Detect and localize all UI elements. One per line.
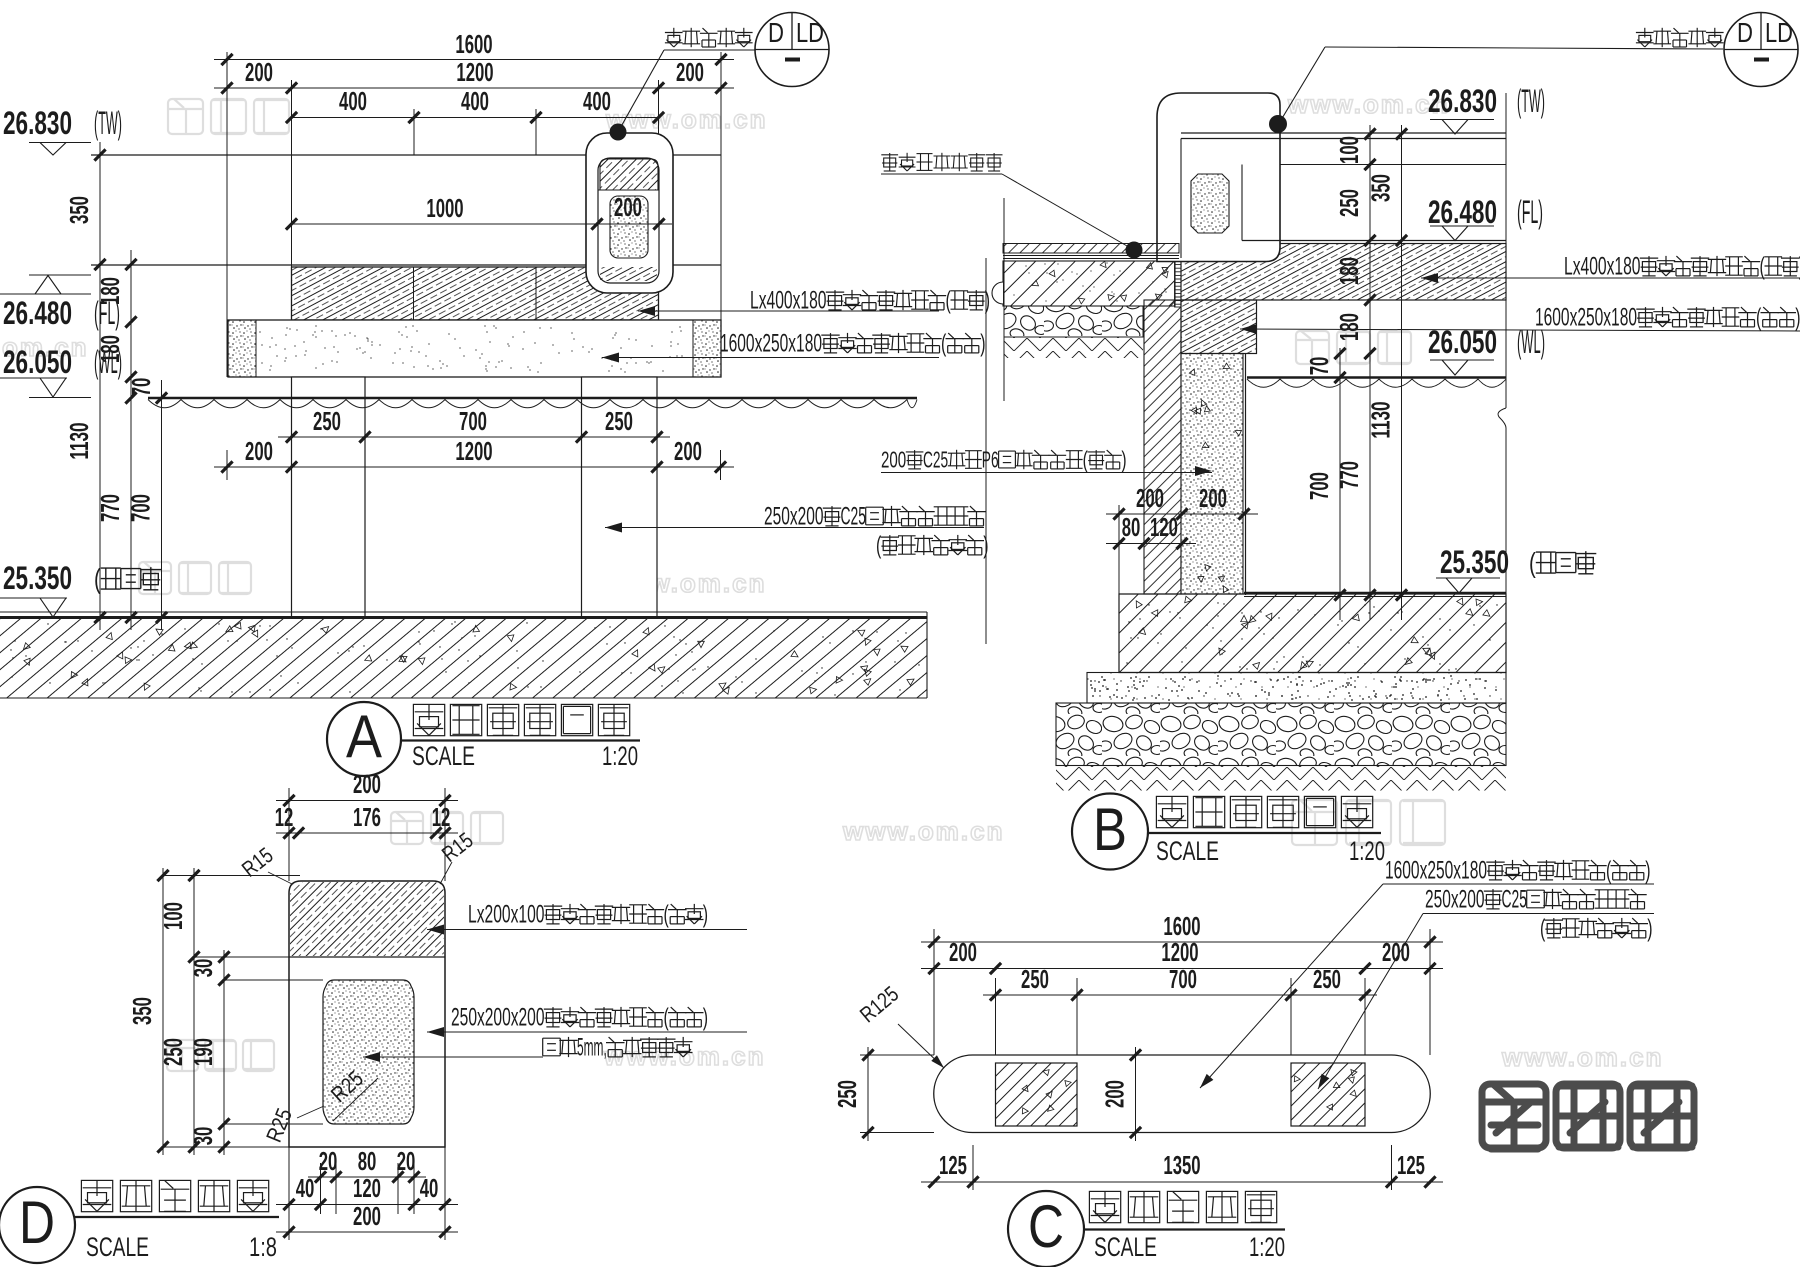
svg-text:D: D (1737, 17, 1753, 48)
svg-text:30: 30 (188, 1127, 218, 1146)
lean concrete blinding (1087, 673, 1506, 704)
svg-text:180: 180 (1334, 313, 1364, 341)
svg-text:100: 100 (1334, 136, 1364, 164)
svg-text:): ) (1121, 447, 1126, 473)
title A text 曲桥剖面图一 (413, 704, 444, 735)
vert dim line x=161 : 700 (161, 380, 163, 630)
svg-text:250: 250 (313, 406, 341, 436)
concrete pier right (582, 377, 658, 617)
title A circle (327, 702, 401, 776)
svg-text:700: 700 (459, 406, 487, 436)
svg-text:80: 80 (358, 1146, 377, 1176)
svg-text:(: ( (1083, 447, 1088, 473)
svg-text:125: 125 (1397, 1150, 1425, 1180)
label 桥面 stone B (1421, 277, 1800, 279)
dim 1600 C (921, 941, 1443, 943)
svg-text:www.om.cn: www.om.cn (1287, 89, 1450, 119)
svg-text:12: 12 (432, 802, 451, 832)
svg-text:180: 180 (95, 277, 125, 305)
svg-text:SCALE: SCALE (86, 1232, 149, 1262)
compacted subgrade (1004, 337, 1143, 358)
label 石梁 stone A (602, 357, 939, 359)
svg-text:Lx200x100: Lx200x100 (468, 901, 545, 928)
svg-text:): ) (1645, 857, 1650, 884)
railing post B (1157, 93, 1280, 262)
svg-text:40: 40 (296, 1173, 315, 1203)
vert dim D x=194 : 100/250 (193, 868, 195, 1155)
svg-text:1600x250x180: 1600x250x180 (1385, 857, 1487, 884)
post cap stone stipple (610, 196, 648, 258)
svg-text:250: 250 (1313, 964, 1341, 994)
svg-text:Lx400x180: Lx400x180 (750, 287, 827, 314)
svg-text:200: 200 (353, 1201, 381, 1231)
FL deck surface line (91, 264, 721, 266)
svg-text:(: ( (1606, 857, 1612, 884)
svg-text:C: C (1028, 1193, 1064, 1260)
svg-text:1200: 1200 (456, 57, 493, 87)
svg-text:26.050: 26.050 (3, 344, 72, 380)
rail cap stone B (1191, 174, 1229, 233)
title C circle (1008, 1191, 1084, 1267)
svg-text:200: 200 (674, 436, 702, 466)
svg-text:200: 200 (1136, 483, 1164, 513)
beam capsule plan (934, 1055, 1430, 1133)
top rail lines B (1181, 132, 1506, 134)
svg-text:70: 70 (126, 378, 156, 397)
svg-text:250: 250 (605, 406, 633, 436)
section B: bridge cross section (1003, 198, 1005, 401)
svg-text:200: 200 (1199, 483, 1227, 513)
svg-text:400: 400 (461, 86, 489, 116)
svg-text:350: 350 (127, 997, 157, 1025)
vert dim line x=131 : 180/180/770 (130, 250, 132, 630)
big watermark logo 欧模网 (1482, 1084, 1546, 1149)
svg-text:1:8: 1:8 (249, 1232, 277, 1262)
dim 80/120 B (1106, 543, 1196, 545)
svg-text:40: 40 (420, 1173, 439, 1203)
svg-text:(: ( (946, 287, 952, 314)
svg-text:): ) (703, 901, 708, 928)
svg-text:200: 200 (881, 447, 906, 473)
label 栏墩 (427, 1031, 747, 1033)
svg-text:20: 20 (397, 1146, 416, 1176)
slab bullnose edge (992, 282, 1003, 304)
label 栏杆 (427, 929, 747, 931)
svg-text:700: 700 (126, 494, 156, 522)
dim 200 D top (288, 788, 290, 881)
svg-text:125: 125 (939, 1150, 967, 1180)
svg-text:200: 200 (614, 192, 642, 222)
level marker FL 26.480 (29, 274, 91, 276)
svg-text:D: D (19, 1189, 55, 1256)
vert dim line x=100 : 350 / 1130 (99, 142, 101, 630)
vert dims B x=1340 : 70/700 (1339, 348, 1341, 620)
dim 200/200 B (1106, 513, 1258, 515)
svg-text:SCALE: SCALE (412, 741, 475, 771)
svg-text:26.830: 26.830 (1428, 83, 1497, 119)
svg-text:C25: C25 (1502, 886, 1528, 913)
label 立柱 concrete column (605, 527, 984, 529)
vert dims B x=1370 : 100/250/180/180/770 (1369, 125, 1371, 620)
svg-text:250x200x200: 250x200x200 (451, 1004, 545, 1031)
svg-text:1200: 1200 (1161, 937, 1198, 967)
svg-text:250: 250 (1021, 964, 1049, 994)
svg-text:700: 700 (1169, 964, 1197, 994)
dim 250/700/250 C (983, 994, 1377, 996)
svg-text:25.350: 25.350 (3, 560, 72, 596)
gravel bed (1056, 703, 1506, 766)
svg-text:190: 190 (188, 1038, 218, 1066)
footing concrete (1119, 594, 1506, 673)
dim 200 C mid (1135, 1047, 1137, 1141)
svg-text:700: 700 (1304, 472, 1334, 500)
dim 200/1200/200 C (921, 968, 1443, 970)
svg-text:100: 100 (158, 902, 188, 930)
svg-text:C25: C25 (841, 503, 867, 530)
D/LD circle B (1724, 13, 1798, 87)
post top rail hatch (600, 159, 658, 190)
svg-text:1130: 1130 (64, 422, 94, 459)
wall facing stone (1144, 300, 1181, 594)
svg-text:180: 180 (95, 335, 125, 363)
svg-text:D: D (768, 17, 784, 48)
rail hatch D (290, 882, 444, 956)
svg-text:1350: 1350 (1163, 1150, 1200, 1180)
dims D bottom (288, 1147, 290, 1240)
svg-text:LD: LD (796, 17, 824, 48)
svg-text:120: 120 (1150, 512, 1178, 542)
svg-text:70: 70 (1304, 357, 1334, 376)
extension lines A top dims (226, 52, 228, 377)
svg-text:(TW): (TW) (94, 105, 122, 141)
svg-text:1600x250x180: 1600x250x180 (1535, 304, 1637, 331)
svg-text:400: 400 (583, 86, 611, 116)
svg-text:250: 250 (1334, 189, 1364, 217)
svg-text:1:20: 1:20 (1249, 1232, 1285, 1262)
node dot A (610, 124, 627, 141)
bridge deck stone B (1181, 244, 1506, 301)
svg-text:5mm,: 5mm, (577, 1034, 607, 1061)
svg-text:(: ( (664, 1004, 670, 1031)
label 人行花岗岩地面 (881, 153, 898, 171)
svg-text:200: 200 (676, 57, 704, 87)
leader detail-2 callout B (1325, 47, 1723, 49)
subgrade hatch (1056, 766, 1506, 791)
mortar joint strip (1175, 244, 1182, 308)
detail C: beam plan 1:20 (933, 929, 935, 1055)
svg-text:200: 200 (245, 57, 273, 87)
svg-text:(: ( (876, 532, 882, 559)
svg-text:P6: P6 (982, 447, 999, 473)
ground hatch band (0, 619, 927, 698)
svg-text:(: ( (1756, 304, 1762, 331)
dim 250 C left (867, 1047, 869, 1141)
pedestrian paving over post corner (1003, 244, 1179, 254)
svg-text:1130: 1130 (1366, 401, 1396, 438)
label 阴刻5mm (363, 1056, 543, 1058)
svg-text:1600x250x180: 1600x250x180 (720, 330, 822, 357)
svg-text:80: 80 (1122, 512, 1141, 542)
svg-text:(: ( (664, 901, 670, 928)
svg-text:): ) (980, 330, 985, 357)
watermarks (168, 99, 203, 134)
svg-text:(: ( (1540, 915, 1546, 942)
column section right (1291, 1063, 1365, 1126)
section edge line B (1505, 93, 1507, 408)
svg-text:): ) (703, 1004, 708, 1031)
title B circle (1072, 794, 1148, 870)
svg-text:SCALE: SCALE (1156, 836, 1219, 866)
svg-text:25.350: 25.350 (1440, 544, 1509, 580)
svg-text:200: 200 (245, 436, 273, 466)
svg-text:250x200: 250x200 (764, 503, 824, 530)
svg-text:250: 250 (158, 1038, 188, 1066)
label 石梁 stone B (1240, 329, 1800, 331)
pool wall C25 concrete (1181, 354, 1243, 595)
svg-text:12: 12 (275, 802, 294, 832)
svg-text:(: ( (1760, 253, 1766, 280)
leader detail-2 callout A (664, 49, 755, 51)
dim 400x3 (292, 117, 659, 119)
vert dim D x=163 : 350 (162, 868, 164, 1155)
dim 1600 (214, 59, 734, 61)
svg-text:): ) (1647, 915, 1652, 942)
svg-text:26.480: 26.480 (3, 295, 72, 331)
title D text 节点大样二 (81, 1180, 112, 1211)
svg-text:(TW): (TW) (1517, 83, 1545, 119)
railing end post A (rounded) (586, 133, 673, 293)
dim 125/1350/125 C (972, 1145, 974, 1190)
rubble bed (1004, 306, 1143, 337)
dim 1000 (292, 223, 598, 225)
svg-text:www.om.cn: www.om.cn (1501, 1042, 1664, 1072)
svg-text:): ) (1795, 304, 1800, 331)
svg-text:C25: C25 (923, 447, 948, 473)
svg-text:www.om.cn: www.om.cn (842, 816, 1005, 846)
concrete pier left (292, 377, 366, 617)
svg-text:350: 350 (1366, 174, 1396, 202)
svg-text:176: 176 (353, 802, 381, 832)
svg-text:(: ( (1529, 547, 1536, 578)
node dot B (1269, 115, 1287, 133)
svg-text:B: B (1093, 796, 1127, 863)
svg-text:26.830: 26.830 (3, 105, 72, 141)
svg-text:200: 200 (949, 937, 977, 967)
label 桥面 stone A (638, 310, 939, 312)
svg-text:1000: 1000 (426, 193, 463, 223)
svg-text:1600: 1600 (455, 29, 492, 59)
railing post D (289, 881, 445, 1147)
svg-text:(: ( (941, 330, 947, 357)
svg-text:250x200: 250x200 (1425, 886, 1485, 913)
svg-text:www.om.cn: www.om.cn (605, 104, 768, 134)
bridge deck stone hatched (Lx400x180) (292, 267, 659, 320)
svg-text:400: 400 (339, 86, 367, 116)
dim 12/176/12 D (276, 832, 458, 834)
water line A (148, 397, 917, 400)
svg-text:1:20: 1:20 (602, 741, 638, 771)
dim 200/1200/200 (214, 87, 734, 89)
svg-text:26.480: 26.480 (1428, 194, 1497, 230)
svg-text:200: 200 (1100, 1080, 1130, 1108)
svg-text:200: 200 (353, 769, 381, 799)
svg-text:SCALE: SCALE (1094, 1232, 1157, 1262)
pier stone stipple D (323, 980, 414, 1124)
dim 200/1200/200 lower A (214, 466, 734, 468)
svg-text:770: 770 (95, 494, 125, 522)
svg-text:Lx400x180: Lx400x180 (1564, 253, 1641, 280)
svg-text:1:20: 1:20 (1349, 836, 1385, 866)
svg-text:250: 250 (832, 1080, 862, 1108)
svg-text:770: 770 (1334, 461, 1364, 489)
stone beam section B (1181, 300, 1257, 354)
dim 250/700/250 A (278, 436, 670, 438)
D/LD circle A (755, 13, 829, 87)
svg-text:LD: LD (1765, 17, 1793, 48)
concrete base slab (1003, 261, 1175, 306)
vert dims B x=1401 : 350/1130 (1401, 125, 1403, 620)
stone beam 1600x250x180 (228, 320, 721, 377)
dim 200 in post (580, 223, 672, 225)
ground line 25.350 (0, 611, 927, 613)
svg-text:120: 120 (353, 1173, 381, 1203)
water line B (1247, 376, 1506, 379)
svg-text:180: 180 (1334, 257, 1364, 285)
svg-text:1200: 1200 (455, 436, 492, 466)
svg-text:20: 20 (319, 1146, 338, 1176)
column section left (996, 1063, 1078, 1126)
svg-text:(FL): (FL) (1517, 194, 1543, 230)
pool floor line (1244, 592, 1506, 594)
title C text 节点大样一 (1089, 1191, 1120, 1222)
svg-text:350: 350 (64, 196, 94, 224)
title B text 曲桥剖面图二 (1156, 796, 1187, 827)
title D circle (0, 1187, 75, 1263)
vert dim D x=224 : 30/190/30 (223, 950, 225, 1155)
TW level line (91, 154, 721, 156)
svg-text:A: A (346, 703, 382, 770)
svg-text:30: 30 (188, 959, 218, 978)
